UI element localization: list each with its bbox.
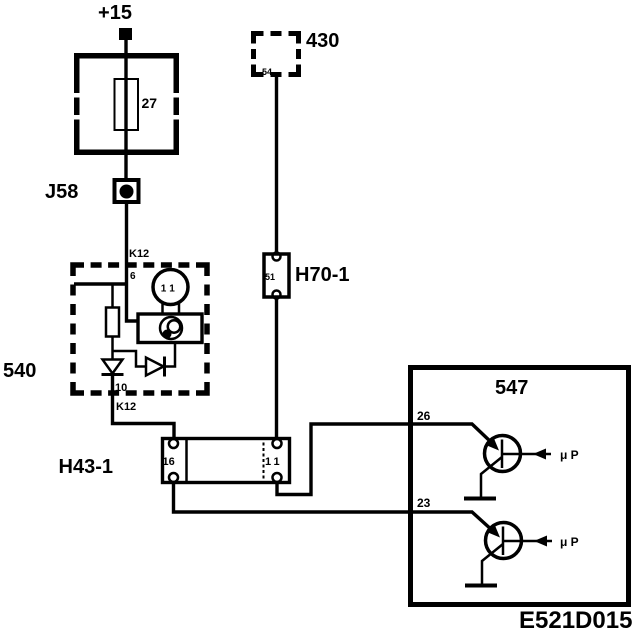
terminal +15 [119, 28, 132, 40]
svg-text:H70-1: H70-1 [295, 264, 349, 286]
wire from +15 terminal through fuse to J58 [124, 40, 127, 179]
solenoid body [138, 314, 202, 343]
wire 26 from H43-1 pin 11 to Q1 [277, 424, 492, 495]
bulb symbol [153, 270, 188, 314]
svg-text:27: 27 [142, 95, 158, 111]
wire H70-1 to H43-1 pin 11 [275, 297, 278, 438]
wire horizontal branch in relay [74, 282, 127, 285]
svg-text:H43-1: H43-1 [59, 456, 113, 478]
svg-text:540: 540 [3, 360, 36, 382]
svg-text:6: 6 [130, 271, 136, 282]
resistor [106, 308, 119, 337]
svg-text:10: 10 [115, 382, 127, 394]
relay box 540 (dashed) [73, 265, 207, 393]
ground Q2 [465, 584, 497, 588]
svg-text:J58: J58 [45, 181, 78, 203]
svg-text:K12: K12 [116, 401, 136, 413]
wire to resistor [111, 284, 114, 308]
svg-text:547: 547 [495, 377, 528, 399]
diode D1 (vertical) [102, 360, 124, 375]
svg-text:K12: K12 [129, 248, 149, 260]
box 430 (dashed) [254, 34, 299, 75]
svg-text:E521D015: E521D015 [519, 607, 632, 630]
svg-text:430: 430 [306, 30, 339, 52]
transistor Q1 [481, 436, 551, 498]
transistor Q2 [482, 523, 552, 585]
arrowhead wire 23 [488, 526, 500, 538]
wire K12 from J58 down into relay box [127, 202, 139, 321]
svg-text:51: 51 [265, 272, 275, 282]
svg-text:11: 11 [161, 284, 179, 295]
motor symbol inside body [160, 317, 182, 339]
svg-text:μ P: μ P [560, 535, 579, 549]
svg-text:μ P: μ P [560, 448, 579, 462]
wire 23 from H43-1 pin 16 to Q2 [174, 482, 494, 531]
fuse holder box 27 [71, 56, 182, 153]
wire 430 to H70-1 [275, 77, 278, 253]
wire resistor to diode [111, 337, 114, 361]
svg-text:23: 23 [417, 496, 431, 510]
wire branch to diode D2 [113, 351, 147, 367]
fuse 27 [115, 79, 139, 130]
arrowhead wire 26 [487, 439, 499, 451]
connector J58 [115, 180, 139, 202]
wire pin 10 down and out of box [113, 375, 175, 439]
diode D2 (horizontal) [146, 343, 175, 377]
svg-text:16: 16 [163, 456, 175, 468]
svg-text:11: 11 [265, 456, 283, 468]
svg-text:+15: +15 [98, 2, 132, 24]
svg-text:54: 54 [262, 67, 272, 77]
svg-text:26: 26 [417, 409, 431, 423]
box 547 [411, 368, 629, 605]
connector H70-1 [264, 253, 289, 299]
connector H43-1 [163, 437, 290, 483]
ground Q1 [464, 497, 496, 501]
